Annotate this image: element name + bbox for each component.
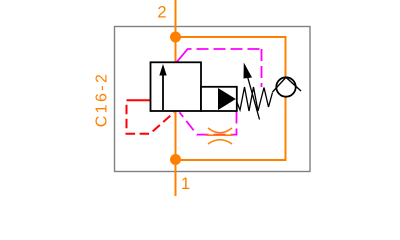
- svg-text:2: 2: [157, 4, 166, 22]
- svg-text:C16-2: C16-2: [94, 72, 111, 128]
- svg-text:1: 1: [181, 175, 190, 193]
